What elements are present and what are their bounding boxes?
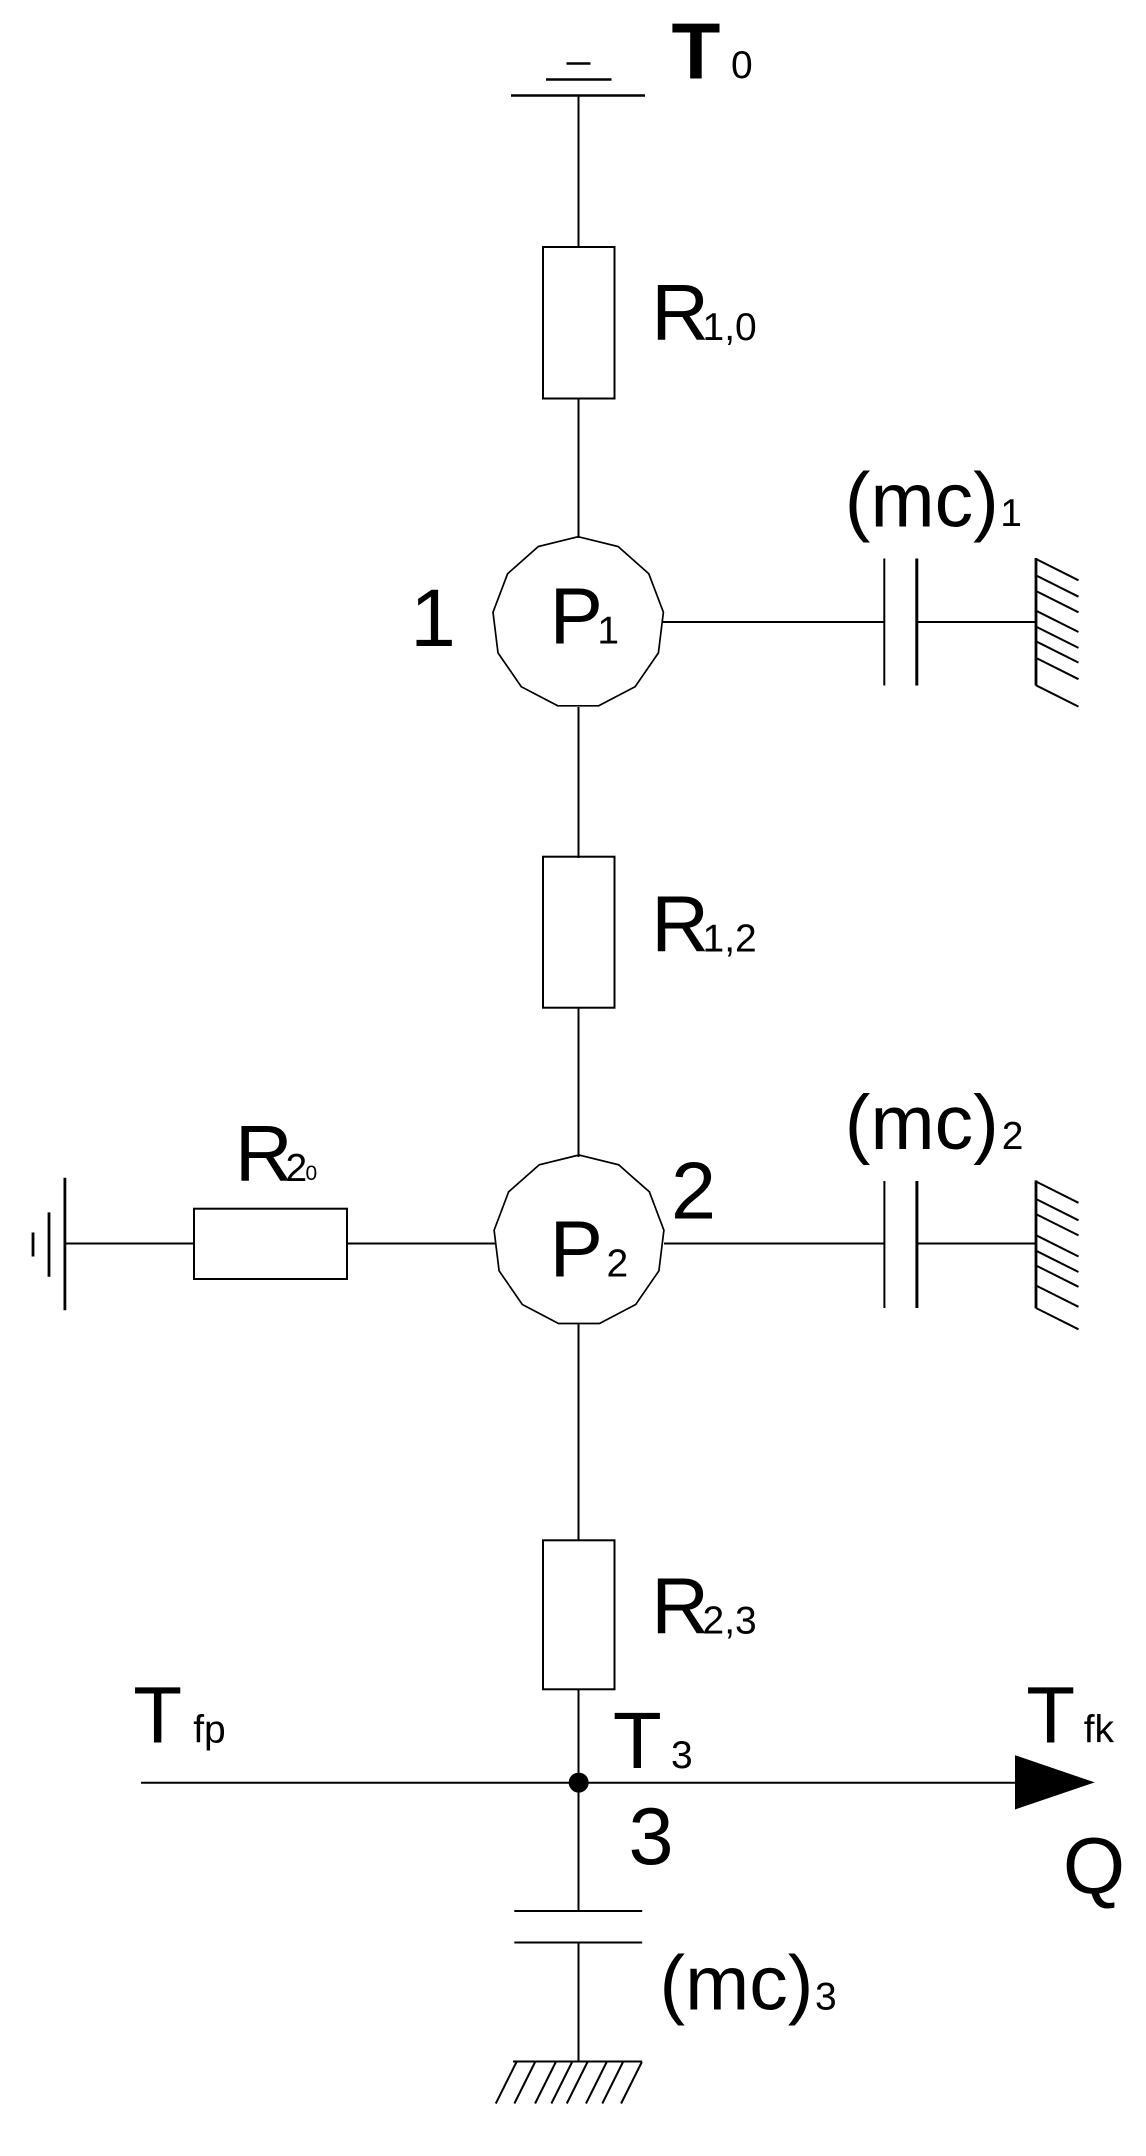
svg-text:T: T	[672, 6, 721, 95]
wire (mc)2 to wall	[917, 1243, 1036, 1245]
resistor R2,3	[543, 1540, 615, 1689]
wire ground to R2,0	[65, 1243, 194, 1245]
temperature source T0 symbol	[511, 64, 645, 96]
label T3	[613, 1696, 693, 1785]
ground bottom	[496, 2062, 642, 2104]
label (mc)3	[660, 1941, 837, 2027]
wire T0 to R1,0	[578, 96, 580, 249]
svg-text:T: T	[133, 1671, 182, 1760]
svg-text:P: P	[550, 1205, 603, 1294]
svg-text:(mc): (mc)	[845, 458, 999, 544]
label P1	[550, 572, 620, 661]
label R2,0	[235, 1109, 317, 1198]
wire R2,0 to P2	[347, 1243, 495, 1245]
wire R1,0 to P1	[578, 399, 580, 539]
svg-text:R: R	[651, 1561, 709, 1650]
svg-text:3: 3	[671, 1734, 693, 1777]
label (mc)2	[845, 1080, 1024, 1166]
wall ground at (mc)1	[1036, 558, 1079, 707]
node P1	[493, 537, 663, 706]
capacitor (mc)1	[884, 559, 917, 686]
svg-text:R: R	[235, 1109, 293, 1198]
resistor R1,0	[543, 247, 615, 399]
wire P2 to R2,3	[578, 1324, 580, 1541]
svg-text:T: T	[613, 1696, 662, 1785]
wire P1 to R1,2	[578, 707, 580, 858]
svg-text:0: 0	[731, 44, 753, 87]
node 3 junction dot	[569, 1773, 589, 1793]
svg-text:2: 2	[607, 1243, 629, 1286]
node P2	[494, 1155, 664, 1324]
svg-text:P: P	[550, 572, 603, 661]
svg-text:0: 0	[306, 1162, 318, 1185]
wire P2 to (mc)2	[664, 1243, 884, 1245]
resistor R2,0	[194, 1209, 347, 1279]
label (mc)1	[845, 458, 1022, 544]
svg-text:2,3: 2,3	[703, 1599, 757, 1642]
wall ground at (mc)2	[1036, 1180, 1079, 1329]
svg-text:1,2: 1,2	[703, 917, 757, 960]
svg-text:Q: Q	[1063, 1821, 1125, 1910]
label R1,2	[651, 879, 756, 968]
wire P1 to (mc)1	[663, 621, 884, 623]
svg-text:(mc): (mc)	[845, 1080, 999, 1166]
label Tfk	[1026, 1670, 1114, 1759]
svg-text:fp: fp	[193, 1709, 226, 1752]
svg-text:1: 1	[1000, 492, 1022, 535]
flow line Tfp to Tfk	[141, 1782, 1016, 1784]
resistor R1,2	[543, 857, 615, 1008]
wire (mc)3 to ground	[578, 1943, 580, 2062]
svg-text:3: 3	[815, 1976, 837, 2019]
svg-text:2: 2	[1002, 1115, 1024, 1158]
wire R2,3 through node 3 to (mc)3	[578, 1689, 580, 1911]
svg-text:2: 2	[671, 1147, 716, 1237]
svg-text:T: T	[1026, 1670, 1075, 1759]
label R2,3	[651, 1561, 756, 1650]
svg-text:fk: fk	[1084, 1708, 1115, 1751]
label P2	[550, 1205, 629, 1294]
svg-text:3: 3	[629, 1792, 674, 1882]
svg-text:(mc): (mc)	[660, 1941, 814, 2027]
label T0	[672, 6, 753, 95]
capacitor (mc)3	[514, 1911, 642, 1943]
svg-text:1: 1	[597, 610, 619, 653]
svg-text:R: R	[651, 268, 709, 357]
svg-text:R: R	[651, 879, 709, 968]
svg-text:1: 1	[410, 573, 456, 664]
capacitor (mc)2	[884, 1181, 917, 1308]
label Tfp	[133, 1671, 226, 1760]
svg-text:1,0: 1,0	[703, 306, 757, 349]
wire R1,2 to P2	[578, 1008, 580, 1157]
wire (mc)1 to wall	[917, 621, 1036, 623]
label R1,0	[651, 268, 756, 357]
ground symbol left	[33, 1178, 65, 1311]
svg-text:2: 2	[286, 1147, 308, 1190]
arrow head Q	[1015, 1755, 1095, 1809]
